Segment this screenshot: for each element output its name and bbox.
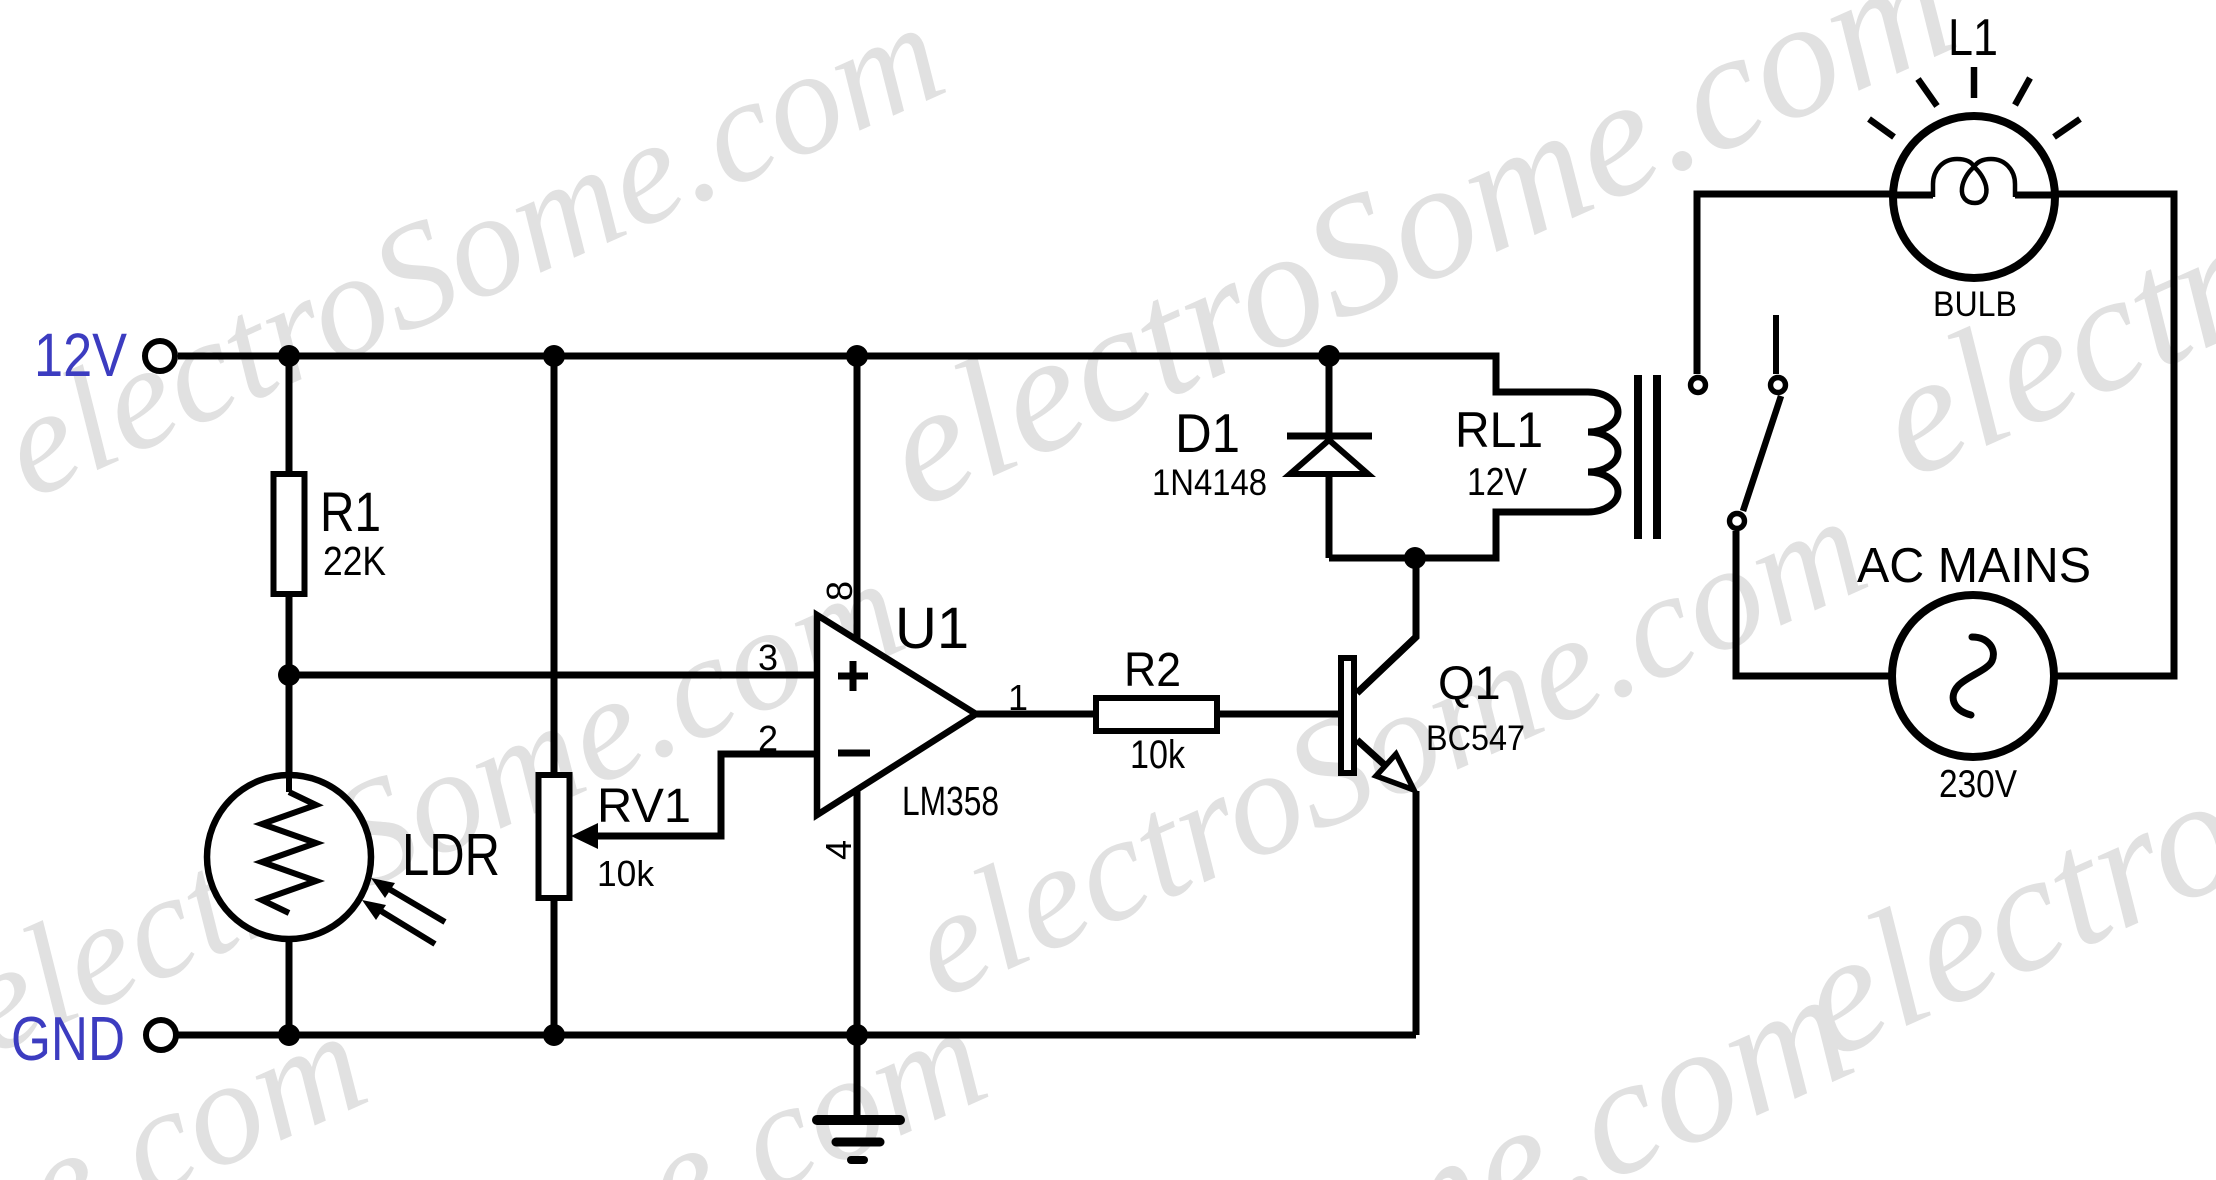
lamp L1 (1869, 9, 2080, 324)
lamp filament (1933, 159, 2015, 203)
svg-text:D1: D1 (1175, 402, 1240, 464)
svg-text:GND: GND (11, 1005, 125, 1074)
svg-text:1: 1 (1008, 677, 1028, 718)
wire relay coil bottom loop (1329, 512, 1588, 558)
resistor R2 (1096, 644, 1217, 777)
svg-text:R1: R1 (320, 480, 381, 543)
relay coil RL1 (1455, 375, 1657, 539)
wire 12V rail (178, 356, 1588, 392)
svg-text:RV1: RV1 (597, 780, 691, 833)
svg-text:4: 4 (818, 840, 859, 860)
svg-text:10k: 10k (597, 853, 655, 894)
svg-text:3: 3 (758, 637, 778, 678)
node GND-pin4 (846, 1024, 868, 1046)
terminal GND (146, 1020, 176, 1050)
LDR (207, 775, 500, 944)
wire pin8 (854, 356, 861, 641)
wire RV1 wiper to pin2 (592, 754, 816, 836)
svg-text:10k: 10k (1130, 733, 1186, 777)
svg-text:8: 8 (819, 581, 860, 601)
wire bulb right loop to AC source (2055, 194, 2174, 676)
resistor R1 (274, 474, 305, 594)
node GND-LDR (278, 1024, 300, 1046)
wire LDR bottom lead (286, 913, 293, 1035)
node 12V-RV1 (543, 345, 565, 367)
diode D1 (1152, 402, 1372, 503)
wire pin3 net (289, 672, 816, 679)
wire RV1 bottom lead (551, 898, 558, 1035)
svg-text:2: 2 (758, 718, 778, 759)
node D1-relay-collector (1404, 547, 1426, 569)
svg-text:AC MAINS: AC MAINS (1857, 539, 2091, 593)
wire Q1 collector (1357, 558, 1416, 693)
svg-text:22K: 22K (323, 538, 386, 584)
relay switch (1691, 315, 1786, 529)
wire R1 bottom to LDR top (286, 594, 293, 792)
wire D1 top lead (1326, 356, 1333, 433)
potentiometer RV1 (539, 775, 722, 898)
wire GND rail (178, 1032, 1416, 1039)
wire RV1 top lead (551, 356, 558, 775)
wire op-amp output to R2 (976, 711, 1096, 718)
svg-text:1N4148: 1N4148 (1152, 462, 1267, 503)
op-amp U1 (758, 581, 1028, 860)
svg-text:230V: 230V (1939, 763, 2017, 806)
wire D1 bottom lead (1326, 474, 1333, 558)
node 12V-R1 (278, 345, 300, 367)
AC mains source (1857, 539, 2091, 806)
wire bulb left to relay contact (1697, 194, 1893, 374)
terminal 12V (145, 341, 175, 371)
svg-text:LM358: LM358 (902, 778, 999, 824)
svg-text:Q1: Q1 (1438, 656, 1501, 709)
svg-text:BC547: BC547 (1426, 719, 1525, 758)
svg-text:U1: U1 (895, 596, 969, 661)
node 12V-D1 (1318, 345, 1340, 367)
node 12V-pin8 (846, 345, 868, 367)
node GND-RV1 (543, 1024, 565, 1046)
wire R2 to Q1 base (1217, 711, 1338, 718)
svg-text:RL1: RL1 (1455, 402, 1543, 458)
transistor Q1 (1341, 637, 1525, 790)
wire AC source left to relay pole (1736, 531, 1891, 676)
svg-text:12V: 12V (34, 321, 127, 389)
ground (817, 1035, 900, 1160)
wire Q1 emitter down (1413, 791, 1420, 1035)
wire R1 top lead (286, 356, 293, 474)
svg-text:BULB: BULB (1933, 285, 2017, 324)
svg-text:L1: L1 (1948, 9, 1998, 67)
node R1-LDR-pin3 (278, 664, 300, 686)
wire pin4 (854, 788, 861, 1035)
svg-text:12V: 12V (1467, 461, 1527, 504)
svg-text:R2: R2 (1124, 644, 1181, 697)
svg-text:LDR: LDR (402, 822, 500, 888)
